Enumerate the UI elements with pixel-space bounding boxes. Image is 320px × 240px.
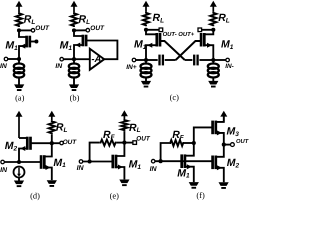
wire to ground left (c)	[145, 78, 147, 82]
svg-text:OUT: OUT	[35, 25, 50, 32]
svg-text:RL: RL	[56, 121, 68, 133]
wire node up to gate M3 (f)	[194, 127, 213, 143]
ground current source (d)	[14, 181, 24, 185]
source arrow M1 right (c)	[207, 43, 212, 48]
svg-text:M1: M1	[60, 40, 73, 52]
svg-text:IN: IN	[55, 63, 63, 70]
transistor M3 (f)	[214, 121, 217, 135]
wire to OUT- (c)	[146, 29, 159, 31]
terminal IN- (c)	[226, 58, 230, 62]
capacitor right (c)	[193, 55, 195, 66]
svg-text:(f): (f)	[196, 191, 205, 200]
node source right (c)	[211, 58, 215, 62]
ground (a)	[14, 84, 24, 88]
VDD arrow (f)	[223, 115, 225, 122]
resistor RL left (c)	[143, 12, 149, 26]
wire to inductor (a)	[18, 59, 20, 64]
svg-text:RL: RL	[218, 12, 230, 24]
transistor M1 (e)	[115, 155, 118, 169]
node output (e)	[122, 141, 126, 145]
wire drain M1 right (c)	[204, 30, 213, 35]
inductor source degeneration (a)	[14, 63, 24, 68]
svg-text:RL: RL	[153, 12, 165, 24]
svg-text:M3: M3	[227, 125, 240, 137]
wire to ground right (c)	[212, 78, 214, 82]
node drain left (c)	[144, 28, 148, 32]
node source left (c)	[144, 58, 148, 62]
VDD arrow left (c)	[145, 5, 147, 11]
svg-text:RL: RL	[24, 14, 36, 26]
svg-text:M1: M1	[221, 38, 234, 50]
wire source M1 (a)	[19, 46, 27, 59]
transistor M1 (a)	[25, 36, 28, 48]
wire RF left down to input (e)	[90, 143, 100, 162]
wire to OUT (d)	[52, 142, 60, 144]
svg-text:RF: RF	[103, 129, 116, 141]
svg-text:OUT: OUT	[136, 136, 151, 143]
terminal IN (b)	[60, 57, 64, 61]
ground M1 (e)	[119, 180, 129, 184]
ground (b)	[69, 84, 79, 88]
wire drain M1 (e)	[116, 143, 124, 156]
svg-text:(c): (c)	[170, 93, 180, 102]
transistor M2 (d)	[26, 137, 29, 150]
terminal OUT (a)	[31, 29, 35, 33]
wire RF right (e)	[116, 142, 124, 144]
terminal IN (d)	[1, 160, 5, 164]
ground M1 (d)	[47, 180, 57, 184]
svg-text:M1: M1	[53, 157, 66, 169]
svg-text:IN: IN	[150, 166, 158, 173]
inductor left (c)	[145, 60, 147, 64]
wire source M1 (e)	[116, 167, 124, 179]
source arrow M1 (f)	[187, 164, 192, 169]
terminal OUT+ (c)	[198, 28, 202, 32]
wire to left capacitor (c)	[146, 59, 158, 61]
svg-text:(d): (d)	[30, 191, 40, 200]
node source (b)	[72, 57, 76, 61]
wire IN- (c)	[213, 59, 226, 61]
node source (a)	[17, 57, 21, 61]
wire IN bus to gates M1 M2 (f)	[155, 160, 213, 162]
wire source M3 (f)	[216, 133, 224, 145]
svg-text:M1: M1	[134, 39, 147, 51]
terminal OUT (b)	[86, 28, 90, 32]
gate lead M2 to output node (d)	[31, 142, 52, 144]
terminal IN (f)	[151, 159, 155, 163]
svg-text:RF: RF	[172, 129, 185, 141]
resistor RF feedback (e)	[100, 140, 117, 146]
wire source M1 (f)	[185, 167, 194, 182]
wire to right capacitor (c)	[199, 59, 213, 61]
svg-text:IN+: IN+	[126, 64, 137, 71]
svg-text:-A: -A	[91, 54, 101, 65]
wire to OUT+ (c)	[202, 29, 214, 31]
VDD arrow left (d)	[18, 115, 20, 138]
node output (f)	[222, 143, 226, 147]
wire amp input (b)	[74, 58, 90, 60]
transistor M1 left (c)	[155, 33, 158, 47]
svg-text:M2: M2	[227, 157, 240, 169]
svg-text:OUT: OUT	[90, 25, 105, 32]
wire IN+ (c)	[136, 59, 146, 61]
gate lead M1 (a)	[30, 41, 35, 43]
node input (f)	[159, 159, 163, 163]
svg-text:(e): (e)	[110, 191, 120, 200]
wire drain M1 (f)	[185, 143, 194, 156]
node input (e)	[88, 159, 92, 163]
source arrow M1 (e)	[118, 165, 123, 170]
wire source M1 (d)	[44, 168, 52, 181]
wire RL to node (d)	[51, 134, 53, 143]
svg-text:(a): (a)	[15, 94, 25, 103]
wire drain M2 (d)	[19, 137, 27, 139]
node input (d)	[17, 160, 21, 164]
op-amp -A (b)	[90, 49, 104, 70]
wire to OUT (e)	[124, 142, 133, 144]
transistor M1 (d)	[43, 155, 46, 169]
svg-text:RL: RL	[79, 14, 91, 26]
svg-text:M1: M1	[129, 159, 142, 171]
wire capacitor to cross (c)	[165, 59, 176, 61]
resistor RF (f)	[169, 140, 184, 146]
wire current source to ground (d)	[18, 177, 20, 181]
wire to OUT (b)	[74, 29, 86, 31]
resistor RL (a)	[16, 12, 22, 27]
terminal IN+ (c)	[132, 58, 136, 62]
cross wire to right gate (c)	[176, 41, 201, 60]
resistor RL (b)	[71, 12, 77, 27]
wire capacitor to cross (c)	[185, 59, 193, 61]
transistor M1 right (c)	[203, 33, 206, 47]
capacitor left (c)	[158, 55, 160, 66]
source arrow M3 (f)	[217, 130, 222, 135]
terminal OUT (f)	[231, 143, 235, 147]
wire to OUT (a)	[19, 29, 31, 31]
wire IN to gate M1 (e)	[83, 161, 113, 163]
svg-text:M2: M2	[5, 140, 18, 152]
terminal IN (e)	[79, 160, 83, 164]
inductor right (c)	[212, 60, 214, 64]
wire IN (a)	[8, 58, 19, 60]
svg-text:RL: RL	[129, 122, 141, 134]
source arrow M1 (a)	[20, 44, 25, 49]
transistor M2 (f)	[214, 156, 217, 170]
svg-text:IN: IN	[77, 165, 85, 172]
wire IN (b)	[64, 58, 75, 60]
svg-text:OUT: OUT	[236, 138, 249, 145]
resistor RL right (c)	[210, 12, 216, 26]
transistor M1 (f)	[184, 154, 187, 168]
wire to ground (b)	[73, 78, 75, 85]
VDD arrow (e)	[123, 115, 125, 119]
wire RF to drain node (f)	[184, 142, 194, 144]
svg-text:(b): (b)	[70, 94, 80, 103]
inductor source degeneration (b)	[73, 59, 75, 64]
wire to OUT (f)	[224, 144, 231, 146]
VDD arrow right (d)	[51, 115, 53, 120]
VDD arrow right (c)	[212, 5, 214, 11]
VDD arrow (b)	[73, 5, 75, 12]
wire drain M1 (a)	[19, 30, 27, 37]
node output (d)	[50, 141, 54, 145]
wire RL to node (e)	[123, 131, 125, 142]
ground left (c)	[141, 81, 151, 85]
svg-text:M1: M1	[5, 40, 18, 52]
svg-text:OUT- OUT+: OUT- OUT+	[163, 31, 195, 38]
gate lead M1 left + cross wire (c)	[160, 41, 185, 60]
wire input up to RF (f)	[161, 143, 170, 161]
wire drain M1 (d)	[44, 143, 52, 156]
wire source M2 (d)	[19, 149, 27, 163]
wire drain M1 (b)	[74, 30, 83, 36]
svg-text:IN-: IN-	[225, 63, 234, 70]
transistor M1 (b)	[82, 35, 85, 47]
terminal OUT (e)	[133, 141, 137, 145]
terminal OUT- (c)	[159, 28, 163, 32]
source arrow M1 (d)	[46, 165, 51, 170]
wire to ground (a)	[18, 78, 20, 85]
svg-text:OUT: OUT	[63, 139, 78, 146]
source arrow M2 (f)	[217, 165, 222, 170]
wire IN to gate M1 (d)	[4, 161, 41, 163]
node drain M1 (f)	[192, 141, 196, 145]
svg-text:IN: IN	[0, 63, 8, 70]
node drain right (c)	[211, 28, 215, 32]
VDD arrow (a)	[18, 5, 20, 12]
terminal IN (a)	[4, 57, 8, 61]
ground right (c)	[208, 81, 218, 85]
current source bias (d)	[14, 167, 25, 178]
wire source M1 right (c)	[204, 45, 213, 60]
resistor RL (d)	[49, 120, 55, 134]
wire source M1 left (c)	[146, 45, 157, 60]
source arrow M1 (b)	[75, 43, 80, 48]
wire drain M3 (f)	[216, 117, 224, 122]
terminal OUT (d)	[60, 141, 64, 145]
svg-text:IN: IN	[0, 167, 8, 174]
ground M2 (f)	[219, 182, 229, 186]
resistor RL (e)	[121, 119, 127, 131]
wire source M1 (b)	[74, 45, 83, 59]
source arrow M1 left (c)	[147, 43, 152, 48]
ground M1 (f)	[189, 182, 199, 186]
gate bias terminal (a)	[34, 40, 38, 44]
source arrow M2 (d)	[20, 146, 25, 151]
svg-text:M1: M1	[177, 167, 190, 179]
wire gate feedback top (b)	[86, 41, 117, 60]
wire source M2 (f)	[216, 168, 224, 183]
node drain (b)	[72, 28, 76, 32]
node drain (a)	[17, 28, 21, 32]
wire drain M1 left (c)	[146, 30, 157, 35]
wire drain M2 (f)	[216, 145, 224, 157]
